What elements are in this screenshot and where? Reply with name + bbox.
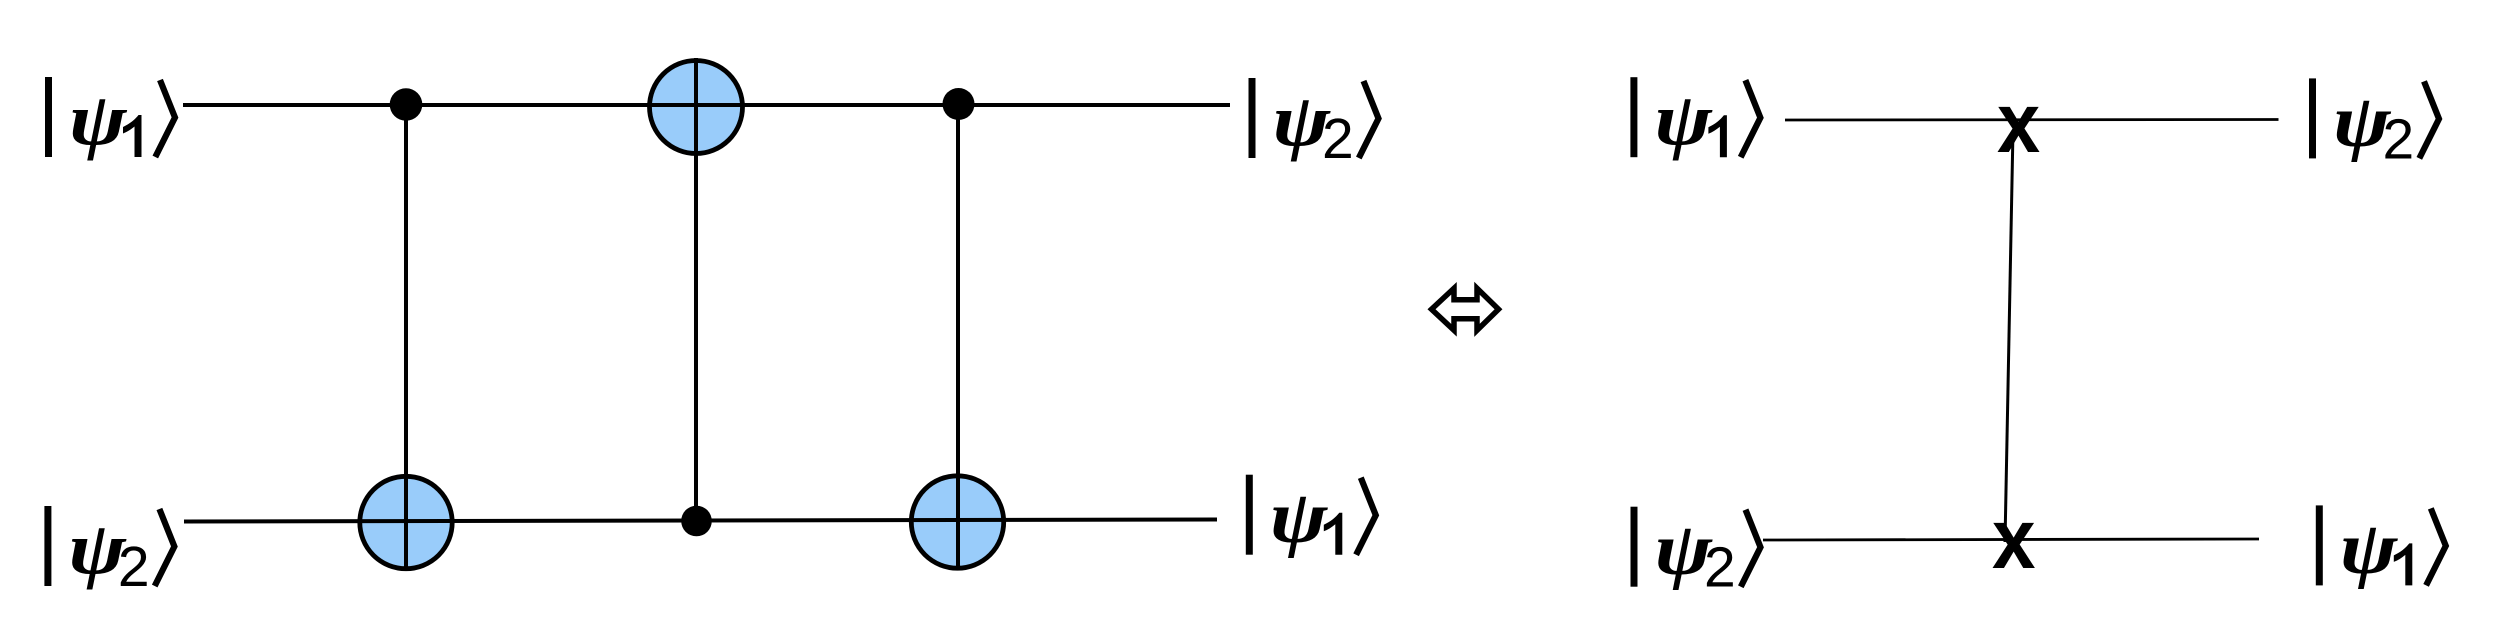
label ket psi1 top-left of right circuit [1630,77,1760,161]
CNOT2 control-target vertical wire [694,58,698,521]
wire bottom qubit right circuit [1763,539,2259,540]
wire top qubit right circuit [1785,118,2279,121]
svg-text:x: x [1997,76,2040,171]
label ket psi2 top-right of right circuit [2309,78,2439,171]
svg-text:ψ: ψ [69,79,128,162]
svg-text:2: 2 [1322,107,1354,171]
CNOT3 control dot [943,88,975,120]
CNOT3 control-target vertical wire [956,104,960,571]
label ket psi1 top-left of left circuit [45,77,175,161]
CNOT3 target circle (bottom wire) [911,476,1003,568]
svg-text:ψ: ψ [2340,507,2399,590]
svg-text:2: 2 [1704,536,1736,600]
svg-text:x: x [1992,492,2035,587]
label ket psi2 top-right of left circuit [1249,78,1379,171]
svg-text:2: 2 [118,535,150,599]
label ket psi1 bottom-right of left circuit [1246,475,1376,559]
svg-text:ψ: ψ [1270,476,1329,559]
label ket psi1 bottom-right of right circuit [2316,505,2446,589]
wire bottom qubit left circuit [184,520,1217,522]
equivalence double arrow [1432,288,1499,330]
CNOT2 control dot [681,506,712,537]
label ket psi2 bottom-left of left circuit [44,506,174,599]
CNOT2 target circle (top wire) [650,61,743,154]
CNOT1 control dot [390,88,423,121]
wire top qubit left circuit [183,103,1230,107]
svg-text:2: 2 [2383,107,2415,171]
CNOT1 target circle (bottom wire) [360,476,452,568]
CNOT1 control-target vertical wire [404,105,408,572]
label ket psi2 bottom-left of right circuit [1631,507,1761,600]
swap X top [1997,76,2040,171]
svg-text:ψ: ψ [1654,79,1713,162]
swap X bottom [1992,492,2035,587]
swap connecting vertical wire [2005,130,2013,542]
